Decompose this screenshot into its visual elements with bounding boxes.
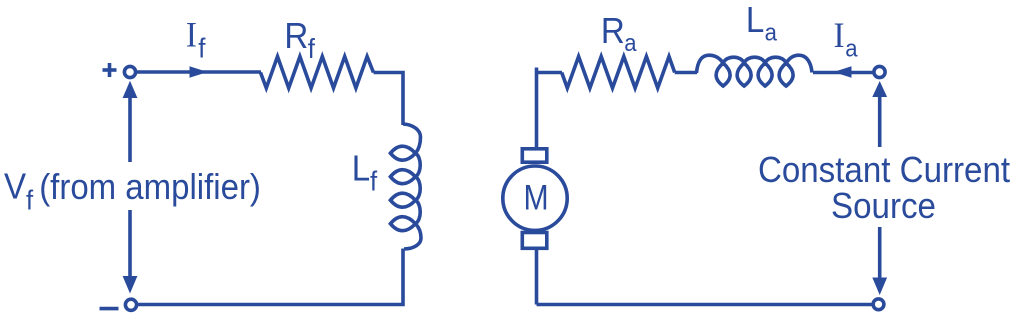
svg-text:M: M	[524, 177, 549, 217]
label L_a	[746, 1, 777, 46]
motor M commutator block top	[522, 149, 547, 162]
node: V_f positive terminal	[124, 66, 135, 77]
wire: L_a to I_a terminal	[813, 71, 874, 75]
constant current source arrow down	[872, 227, 887, 295]
svg-text:Constant Current: Constant Current	[758, 151, 1010, 191]
svg-text:f: f	[370, 166, 378, 197]
inductor L_a	[697, 55, 813, 86]
resistor R_f	[261, 57, 374, 89]
svg-text:Source: Source	[831, 187, 936, 227]
svg-text:L: L	[746, 1, 764, 41]
label L_f	[352, 149, 378, 197]
wire: top horizontal from corner to R_a	[537, 71, 563, 75]
wire: R_a to L_a	[675, 71, 697, 75]
terminal minus sign (V_f -)	[100, 307, 119, 311]
terminal plus sign (V_f +)	[103, 63, 117, 77]
arrowhead I_f current direction	[190, 66, 208, 78]
svg-text:a: a	[624, 29, 636, 56]
node: V_f negative terminal	[125, 299, 136, 310]
svg-text:(from amplifier): (from amplifier)	[39, 168, 261, 208]
wire: R_f to top-right corner and down to L_f	[374, 73, 404, 126]
svg-text:f: f	[26, 185, 34, 216]
label I_a	[834, 16, 858, 62]
svg-text:a: a	[845, 34, 857, 61]
svg-text:R: R	[601, 12, 625, 52]
svg-text:I: I	[186, 15, 197, 55]
svg-text:V: V	[4, 167, 26, 207]
svg-text:f: f	[308, 33, 316, 64]
node: armature terminal top	[874, 66, 885, 77]
V_f voltage arrow down	[123, 210, 138, 294]
inductor L_f	[390, 124, 421, 249]
motor M body	[503, 166, 567, 230]
label Constant Current Source	[758, 151, 1010, 227]
label R_f	[284, 17, 315, 64]
svg-text:a: a	[765, 18, 777, 45]
label V_f (from amplifier)	[4, 167, 261, 216]
wire: right-circuit top-left corner down to motor	[535, 68, 539, 150]
svg-text:R: R	[284, 17, 308, 57]
wire: motor bottom to bottom wire	[535, 248, 539, 304]
wire: top-left horizontal from + terminal to R_f	[136, 70, 261, 74]
motor M commutator block bottom	[522, 233, 547, 249]
svg-text:L: L	[352, 149, 370, 189]
wire: bottom horizontal of right circuit	[537, 303, 873, 307]
node: armature terminal bottom	[873, 299, 884, 310]
svg-text:I: I	[834, 16, 845, 56]
label I_f	[186, 15, 206, 64]
V_f voltage arrow up	[123, 81, 138, 162]
resistor R_a	[562, 57, 675, 89]
constant current source arrow up	[872, 81, 887, 147]
label R_a	[601, 12, 637, 56]
wire: L_f down to bottom-left corner	[137, 249, 403, 305]
svg-text:f: f	[198, 33, 206, 64]
arrowhead I_a current direction (pointing left)	[834, 66, 852, 78]
